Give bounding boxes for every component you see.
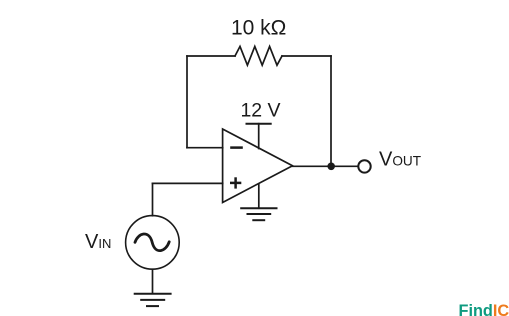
wire non-inverting input [153, 182, 223, 184]
label minus input [230, 146, 243, 149]
wire feedback left vertical [186, 56, 188, 148]
wire inverting input [187, 147, 223, 149]
ground op-amp [240, 208, 277, 220]
label plus input [230, 177, 241, 188]
svg-text:FindIC: FindIC [459, 302, 509, 316]
wire output [293, 165, 359, 167]
wire feedback top right [282, 55, 331, 57]
svg-text:VIN: VIN [85, 231, 111, 253]
svg-text:VOUT: VOUT [379, 149, 421, 171]
svg-text:12 V: 12 V [240, 99, 280, 121]
ground source [134, 294, 172, 306]
junction node output [327, 163, 335, 171]
wire source to plus input [152, 183, 154, 215]
sine waveform [135, 234, 169, 251]
op-amp U1 [223, 129, 293, 203]
wire source bottom to ground [152, 269, 154, 293]
svg-text:10 kΩ: 10 kΩ [231, 17, 286, 40]
pin ground vertical of op-amp [258, 184, 260, 208]
pin V+ power vertical [258, 124, 260, 149]
wire feedback right vertical [330, 56, 332, 166]
terminal VOUT open circle [358, 160, 370, 172]
source V1 sine circle [126, 216, 180, 270]
wire feedback top left [187, 55, 235, 57]
power rail bar 12V [247, 123, 271, 125]
resistor R1 10 kOhm [235, 46, 282, 65]
